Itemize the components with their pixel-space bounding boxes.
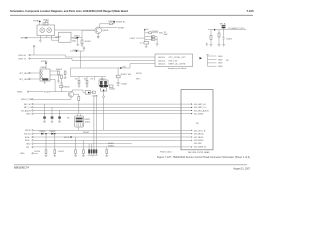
- svg-text:D0301: D0301: [74, 35, 81, 37]
- svg-text:D0402: D0402: [40, 131, 47, 133]
- svg-text:R0405: R0405: [108, 143, 115, 145]
- svg-text:OPT_SEL2: OPT_SEL2: [19, 79, 30, 81]
- svg-text:J0403: J0403: [85, 122, 91, 124]
- svg-text:MIC_LO: MIC_LO: [199, 107, 207, 109]
- svg-text:IGN_5.0V: IGN_5.0V: [169, 60, 178, 62]
- svg-text:J0402-3: J0402-3: [158, 64, 166, 66]
- svg-text:VSTBY: VSTBY: [41, 61, 48, 63]
- svg-text:GND: GND: [218, 63, 223, 65]
- svg-text:C0408: C0408: [121, 84, 128, 86]
- svg-text:MIC_LO: MIC_LO: [24, 107, 32, 109]
- svg-text:August 31, 2007: August 31, 2007: [233, 168, 250, 171]
- svg-text:R1: R1: [152, 36, 154, 38]
- svg-text:OPT_CNTRL_OPT: OPT_CNTRL_OPT: [169, 57, 187, 59]
- svg-text:BUS− B: BUS− B: [19, 58, 27, 60]
- svg-text:GND: GND: [26, 144, 31, 146]
- svg-text:BUS+: BUS+: [199, 134, 205, 136]
- svg-text:SECURE CNTRL HEAD: SECURE CNTRL HEAD: [188, 151, 210, 154]
- svg-text:D0403: D0403: [50, 131, 57, 133]
- svg-text:MIC_HI: MIC_HI: [24, 104, 31, 106]
- svg-text:T1: T1: [44, 24, 46, 26]
- svg-text:SW_B+: SW_B+: [220, 24, 228, 26]
- svg-text:C0402: C0402: [226, 39, 233, 41]
- svg-text:J0402-1: J0402-1: [158, 57, 166, 59]
- svg-text:BUS−: BUS−: [199, 137, 205, 139]
- svg-text:GND: GND: [199, 140, 204, 142]
- svg-text:R0406: R0406: [108, 146, 115, 148]
- svg-text:C0413: C0413: [100, 78, 107, 80]
- svg-text:C0411: C0411: [58, 151, 65, 153]
- svg-text:BUS−: BUS−: [25, 140, 31, 142]
- svg-text:GND: GND: [20, 153, 25, 155]
- svg-text:TO SHEET 2 OF 2: TO SHEET 2 OF 2: [228, 28, 245, 30]
- svg-text:SPKR_COM: SPKR_COM: [21, 99, 33, 101]
- svg-text:SPKR: SPKR: [85, 119, 91, 121]
- svg-text:NOTE:: NOTE:: [136, 73, 143, 75]
- svg-text:R0404: R0404: [56, 69, 63, 71]
- svg-text:EMGY_A+_CNTRL: EMGY_A+_CNTRL: [169, 63, 187, 66]
- svg-text:VSTBY: VSTBY: [33, 20, 40, 22]
- svg-text:OPT_SEL1: OPT_SEL1: [19, 73, 30, 75]
- svg-text:R2: R2: [152, 39, 154, 41]
- svg-text:SW_B+: SW_B+: [24, 134, 32, 136]
- svg-text:IGN: IGN: [159, 33, 163, 35]
- svg-text:Q0301: Q0301: [103, 30, 110, 32]
- svg-text:P0401 labels: P0401 labels: [160, 151, 172, 153]
- svg-text:GND: GND: [218, 66, 223, 68]
- svg-text:Figure 7-107. HUE4040A Secure: Figure 7-107. HUE4040A Secure Control He…: [157, 156, 250, 159]
- svg-text:SWB+: SWB+: [17, 92, 24, 94]
- svg-text:GND: GND: [26, 114, 31, 116]
- svg-text:RX_AUDIO: RX_AUDIO: [21, 109, 32, 112]
- svg-text:VOL_B: VOL_B: [199, 130, 206, 132]
- svg-text:KEYF: KEYF: [64, 137, 70, 139]
- svg-text:RX_AUDIO: RX_AUDIO: [199, 109, 210, 112]
- svg-text:U0301: U0301: [43, 20, 50, 22]
- svg-text:R0301: R0301: [85, 41, 92, 43]
- svg-text:7-105: 7-105: [247, 9, 255, 13]
- svg-text:C0405: C0405: [92, 95, 99, 97]
- svg-text:C0411: C0411: [130, 38, 137, 40]
- svg-text:VSTBY: VSTBY: [118, 27, 125, 29]
- svg-text:GND: GND: [218, 56, 223, 58]
- svg-text:BUS+: BUS+: [25, 137, 31, 139]
- svg-text:C0410: C0410: [34, 151, 41, 153]
- svg-text:BUS+ A: BUS+ A: [19, 54, 27, 57]
- svg-text:C0406: C0406: [109, 88, 116, 90]
- svg-text:6881096C74: 6881096C74: [14, 166, 29, 170]
- svg-text:SW_B+: SW_B+: [200, 147, 208, 149]
- svg-text:UNSW_B+: UNSW_B+: [116, 22, 127, 24]
- svg-text:frequency test labels: frequency test labels: [168, 67, 186, 70]
- svg-text:GND: GND: [199, 114, 204, 116]
- svg-text:GND: GND: [218, 59, 223, 61]
- svg-text:MIC_HI: MIC_HI: [199, 104, 206, 106]
- svg-text:R0408: R0408: [64, 86, 71, 88]
- svg-text:J0402-2: J0402-2: [158, 60, 166, 62]
- svg-text:Schematics, Component Location: Schematics, Component Location Diagrams,…: [10, 9, 128, 13]
- svg-text:RESET: RESET: [21, 38, 28, 40]
- svg-text:C0304: C0304: [55, 36, 62, 38]
- svg-text:SPKR: SPKR: [25, 130, 31, 132]
